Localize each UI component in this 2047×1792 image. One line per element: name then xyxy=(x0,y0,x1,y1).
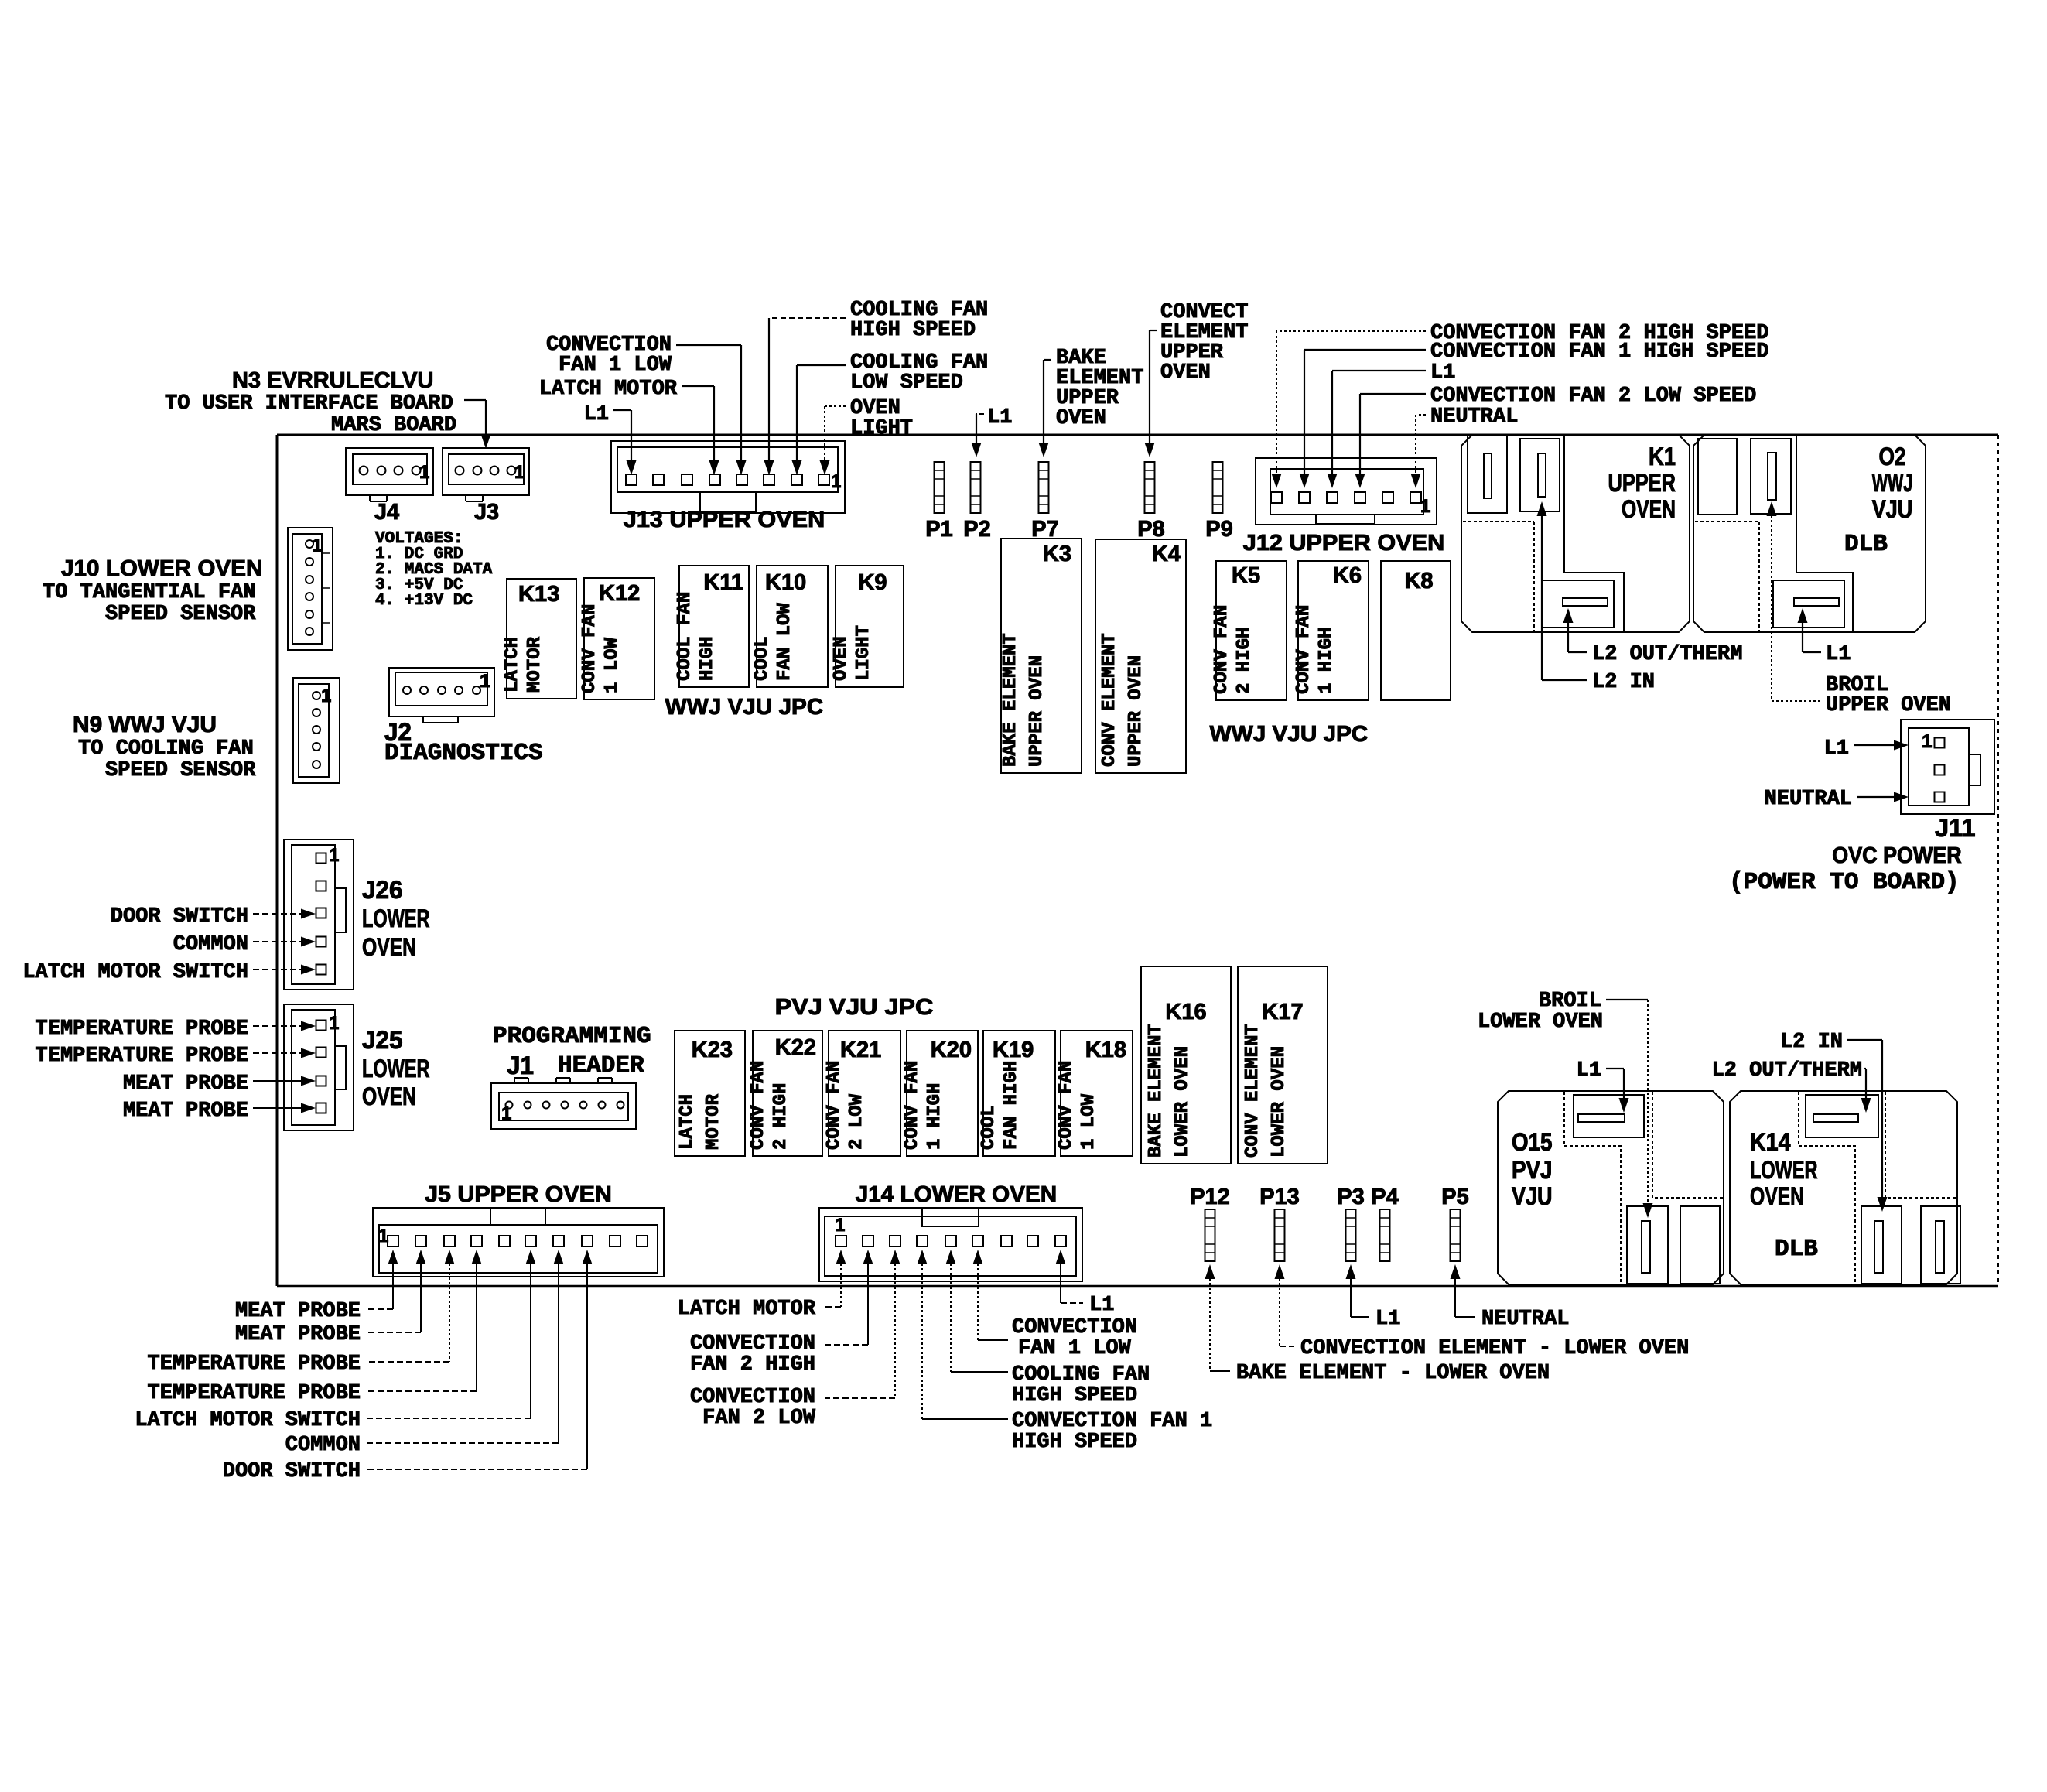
relay O15 PVJ VJU box xyxy=(1498,1091,1724,1284)
svg-text:UPPER: UPPER xyxy=(1608,469,1676,497)
svg-text:CONVECTION FAN 1 HIGH SPEED: CONVECTION FAN 1 HIGH SPEED xyxy=(1430,340,1768,364)
board outline right edge (dashed) xyxy=(1997,435,1999,1286)
wire L1 to J13 pin1 xyxy=(613,409,631,411)
svg-text:FAN 1 LOW: FAN 1 LOW xyxy=(559,354,672,377)
svg-text:LATCH MOTOR SWITCH: LATCH MOTOR SWITCH xyxy=(135,1409,361,1432)
svg-text:K9: K9 xyxy=(858,570,887,595)
svg-text:K21: K21 xyxy=(840,1038,881,1062)
relay O2 WWJ VJU (DLB box) xyxy=(1693,435,1926,632)
svg-text:K8: K8 xyxy=(1404,569,1433,593)
svg-text:L2 OUT/THERM: L2 OUT/THERM xyxy=(1592,643,1742,666)
svg-text:NEUTRAL: NEUTRAL xyxy=(1765,788,1852,811)
svg-text:2 HIGH: 2 HIGH xyxy=(771,1083,791,1150)
wire J5 pin to COMMON xyxy=(554,1250,564,1264)
svg-text:TEMPERATURE PROBE: TEMPERATURE PROBE xyxy=(148,1382,361,1405)
svg-text:DIAGNOSTICS: DIAGNOSTICS xyxy=(384,740,543,767)
svg-text:CONV FAN: CONV FAN xyxy=(902,1061,923,1150)
svg-text:LIGHT: LIGHT xyxy=(850,417,913,440)
wire J14 pin4 CONVECTION FAN 1 HIGH SPEED xyxy=(918,1250,928,1264)
wire J5 pin to MEAT PROBE xyxy=(388,1250,398,1264)
svg-text:K16: K16 xyxy=(1165,1000,1206,1024)
svg-text:LOWER: LOWER xyxy=(1750,1156,1818,1184)
pin P9 xyxy=(1213,462,1223,513)
svg-text:K17: K17 xyxy=(1262,1000,1303,1024)
svg-text:LOW SPEED: LOW SPEED xyxy=(850,371,963,395)
svg-text:1 LOW: 1 LOW xyxy=(1078,1093,1099,1150)
svg-text:K11: K11 xyxy=(703,570,743,595)
svg-text:CONV FAN: CONV FAN xyxy=(579,604,600,693)
svg-text:SPEED SENSOR: SPEED SENSOR xyxy=(105,759,256,782)
svg-text:OVEN: OVEN xyxy=(1160,361,1211,385)
wire L1 to J12 pin3 xyxy=(1332,370,1426,371)
wire J5 pin to DOOR SWITCH xyxy=(583,1250,593,1264)
svg-text:CONVECTION ELEMENT - LOWER OVE: CONVECTION ELEMENT - LOWER OVEN xyxy=(1300,1337,1689,1360)
svg-text:CONV ELEMENT: CONV ELEMENT xyxy=(1099,633,1120,767)
svg-text:K3: K3 xyxy=(1043,542,1071,566)
svg-text:LOWER: LOWER xyxy=(362,905,430,932)
svg-text:1: 1 xyxy=(419,462,429,483)
svg-text:J25: J25 xyxy=(362,1026,403,1054)
connector J1 xyxy=(491,1078,636,1129)
wire L1 to O15 upper connector xyxy=(1606,1068,1624,1069)
wire N3 to J3 xyxy=(464,399,486,401)
svg-text:J10 LOWER OVEN: J10 LOWER OVEN xyxy=(61,556,262,581)
svg-text:NEUTRAL: NEUTRAL xyxy=(1430,405,1518,429)
svg-text:MOTOR: MOTOR xyxy=(703,1093,724,1150)
svg-text:1: 1 xyxy=(501,1103,511,1124)
svg-text:FAN 2 LOW: FAN 2 LOW xyxy=(702,1407,816,1430)
svg-text:VJU: VJU xyxy=(1512,1182,1553,1210)
wire J5 pin to MEAT PROBE xyxy=(416,1250,426,1264)
connector J11 OVC POWER xyxy=(1901,720,1994,814)
board outline left edge xyxy=(276,435,279,1286)
wire P3 L1 xyxy=(1346,1264,1356,1279)
svg-text:DLB: DLB xyxy=(1775,1236,1818,1263)
svg-text:OVEN: OVEN xyxy=(1622,495,1676,523)
svg-text:TO COOLING FAN: TO COOLING FAN xyxy=(78,737,254,761)
svg-text:1: 1 xyxy=(835,1215,845,1236)
relay K20 CONV FAN 1 HIGH xyxy=(902,1031,978,1156)
wire L2 IN to K1 connector xyxy=(1537,501,1547,516)
svg-text:1: 1 xyxy=(514,462,525,483)
wire CONVECTION FAN 2 HIGH SPEED to J12 pin1 (dotted) xyxy=(1276,330,1426,332)
svg-text:CONV FAN: CONV FAN xyxy=(748,1061,769,1150)
svg-text:COMMON: COMMON xyxy=(173,933,248,956)
svg-text:DOOR SWITCH: DOOR SWITCH xyxy=(223,1460,361,1483)
svg-text:P13: P13 xyxy=(1259,1185,1300,1209)
wire P13 CONVECTION ELEMENT - LOWER OVEN xyxy=(1275,1264,1285,1279)
svg-text:P3: P3 xyxy=(1337,1185,1364,1209)
svg-text:P4: P4 xyxy=(1371,1185,1398,1209)
svg-text:LIGHT: LIGHT xyxy=(853,625,874,681)
board outline top edge xyxy=(277,434,1998,436)
svg-text:2 LOW: 2 LOW xyxy=(846,1093,867,1150)
svg-text:TEMPERATURE PROBE: TEMPERATURE PROBE xyxy=(148,1353,361,1376)
svg-text:TEMPERATURE PROBE: TEMPERATURE PROBE xyxy=(36,1017,248,1041)
svg-text:J12 UPPER OVEN: J12 UPPER OVEN xyxy=(1243,531,1444,556)
svg-text:MOTOR: MOTOR xyxy=(525,636,545,693)
relay K21 CONV FAN 2 LOW xyxy=(824,1031,900,1156)
svg-text:K1: K1 xyxy=(1649,443,1676,470)
connector J26 LOWER OVEN xyxy=(284,840,354,990)
svg-text:P2: P2 xyxy=(963,517,990,542)
connector J12 xyxy=(1256,458,1437,525)
svg-text:CONVECTION: CONVECTION xyxy=(690,1332,815,1356)
svg-text:K12: K12 xyxy=(599,581,640,606)
wire J14 pin1 LATCH MOTOR xyxy=(836,1250,846,1264)
pin P3 xyxy=(1346,1209,1356,1261)
wire COOLING FAN LOW SPEED to J13 pin7 xyxy=(797,364,846,366)
relay K4 CONV ELEMENT UPPER OVEN xyxy=(1095,539,1186,773)
wire J14 pin9 L1 xyxy=(1056,1250,1066,1264)
svg-text:1 LOW: 1 LOW xyxy=(602,637,623,693)
svg-text:L1: L1 xyxy=(1826,643,1851,666)
connector J14 xyxy=(819,1208,1082,1281)
svg-text:1: 1 xyxy=(312,535,322,556)
relay K1 UPPER OVEN (DLB box) xyxy=(1461,435,1690,632)
pin P4 xyxy=(1380,1209,1390,1261)
connector J2 DIAGNOSTICS xyxy=(389,668,494,723)
svg-text:FAN 2 HIGH: FAN 2 HIGH xyxy=(690,1353,815,1376)
svg-text:L1: L1 xyxy=(1089,1294,1114,1317)
connector J4 xyxy=(346,448,433,501)
svg-text:(POWER TO BOARD): (POWER TO BOARD) xyxy=(1729,869,1960,896)
relay K16 BAKE ELEMENT LOWER OVEN xyxy=(1141,966,1231,1164)
relay K9 OVEN LIGHT xyxy=(831,566,904,687)
wire MEAT PROBE to J25 pin4 xyxy=(253,1107,302,1109)
svg-text:J11: J11 xyxy=(1935,814,1976,842)
wire MEAT PROBE to J25 pin3 xyxy=(253,1080,302,1082)
svg-text:1: 1 xyxy=(321,686,331,706)
svg-text:CONV FAN: CONV FAN xyxy=(824,1061,845,1150)
relay K13 LATCH MOTOR xyxy=(502,579,576,699)
svg-text:OVEN: OVEN xyxy=(1750,1182,1804,1210)
svg-text:LATCH: LATCH xyxy=(502,637,523,693)
svg-text:MEAT PROBE: MEAT PROBE xyxy=(123,1099,248,1123)
wire LATCH MOTOR to J13 pin4 xyxy=(682,385,714,387)
wire CONVECTION FAN 1 HIGH SPEED to J12 pin2 xyxy=(1304,349,1426,351)
wire J5 pin to LATCH MOTOR SWITCH xyxy=(526,1250,536,1264)
svg-text:N3 EVRRULECLVU: N3 EVRRULECLVU xyxy=(232,368,433,393)
connector N9 xyxy=(293,678,340,783)
pin P2 xyxy=(971,462,981,513)
svg-text:COOLING FAN: COOLING FAN xyxy=(1012,1363,1150,1387)
svg-text:J1: J1 xyxy=(507,1052,534,1079)
wire COOLING FAN HIGH SPEED to J13 pin6 xyxy=(769,317,846,319)
wire BROIL UPPER OVEN to O2 connector (dotted) xyxy=(1767,501,1777,516)
svg-text:L1: L1 xyxy=(1375,1308,1400,1331)
svg-text:NEUTRAL: NEUTRAL xyxy=(1481,1308,1569,1331)
svg-text:P5: P5 xyxy=(1441,1185,1468,1209)
svg-text:COOL: COOL xyxy=(752,636,773,681)
svg-text:LATCH: LATCH xyxy=(677,1094,698,1150)
svg-text:CONV FAN: CONV FAN xyxy=(1056,1061,1077,1150)
svg-text:LATCH MOTOR: LATCH MOTOR xyxy=(678,1298,816,1321)
pin P7 xyxy=(1039,462,1049,513)
wire CONVECTION FAN 2 LOW SPEED to J12 pin4 xyxy=(1360,393,1426,395)
svg-text:MEAT PROBE: MEAT PROBE xyxy=(235,1323,361,1346)
svg-text:L2 OUT/THERM: L2 OUT/THERM xyxy=(1712,1059,1862,1082)
svg-text:SPEED SENSOR: SPEED SENSOR xyxy=(105,603,256,626)
svg-text:1: 1 xyxy=(480,671,490,692)
svg-text:COMMON: COMMON xyxy=(285,1434,361,1457)
svg-text:K18: K18 xyxy=(1085,1038,1126,1062)
wire NEUTRAL to J12 pin6 (dotted) xyxy=(1416,414,1426,416)
svg-text:FAN HIGH: FAN HIGH xyxy=(1001,1061,1022,1150)
wire L2 IN to K14 lower connector xyxy=(1847,1039,1882,1041)
svg-text:OVEN: OVEN xyxy=(1056,407,1106,430)
svg-text:LOWER OVEN: LOWER OVEN xyxy=(1478,1011,1603,1034)
svg-text:J5 UPPER OVEN: J5 UPPER OVEN xyxy=(425,1182,612,1207)
relay K14 LOWER OVEN (DLB box) xyxy=(1730,1091,1960,1284)
svg-text:CONVECTION FAN 2 LOW SPEED: CONVECTION FAN 2 LOW SPEED xyxy=(1430,385,1756,408)
relay K19 COOL FAN HIGH xyxy=(979,1031,1055,1156)
svg-text:CONVECTION: CONVECTION xyxy=(690,1386,815,1409)
relay K6 CONV FAN 1 HIGH xyxy=(1293,561,1369,700)
svg-text:L1: L1 xyxy=(584,403,609,426)
svg-text:1: 1 xyxy=(831,471,841,492)
wire TEMPERATURE PROBE to J25 pin1 xyxy=(253,1025,302,1027)
connector J3 xyxy=(443,448,529,501)
svg-text:K10: K10 xyxy=(765,570,806,595)
svg-text:CONV FAN: CONV FAN xyxy=(1293,605,1314,694)
wire J14 pin6 CONVECTION FAN 1 LOW xyxy=(973,1250,983,1264)
wire L1 to J11 pin1 xyxy=(1854,744,1895,746)
pin P12 xyxy=(1205,1209,1215,1261)
svg-text:O15: O15 xyxy=(1512,1128,1553,1156)
svg-text:HIGH SPEED: HIGH SPEED xyxy=(1012,1384,1137,1407)
svg-text:TEMPERATURE PROBE: TEMPERATURE PROBE xyxy=(36,1045,248,1068)
wire CONVECT ELEMENT UPPER OVEN to P8 xyxy=(1150,330,1157,331)
relay K5 CONV FAN 2 HIGH xyxy=(1211,561,1287,700)
pin P8 xyxy=(1145,462,1155,513)
wire BAKE ELEMENT UPPER OVEN to P7 xyxy=(1044,359,1051,361)
svg-text:P12: P12 xyxy=(1190,1185,1230,1209)
pin P13 xyxy=(1275,1209,1285,1261)
pin P5 xyxy=(1451,1209,1461,1261)
svg-text:WWJ: WWJ xyxy=(1872,469,1913,497)
connector J10 xyxy=(288,528,333,650)
wire BROIL LOWER OVEN to O15 lower connector xyxy=(1606,999,1648,1000)
svg-text:HIGH: HIGH xyxy=(697,636,718,681)
relay K17 CONV ELEMENT LOWER OVEN xyxy=(1238,966,1328,1164)
svg-text:OVEN: OVEN xyxy=(831,636,852,681)
connector J13 xyxy=(611,441,845,513)
svg-text:TO TANGENTIAL FAN: TO TANGENTIAL FAN xyxy=(43,581,255,604)
relay K3 BAKE ELEMENT UPPER OVEN xyxy=(1000,539,1082,773)
svg-text:MARS BOARD: MARS BOARD xyxy=(331,414,456,437)
wire L1 to O2 lower connector xyxy=(1798,608,1808,623)
svg-text:LATCH MOTOR: LATCH MOTOR xyxy=(539,378,678,401)
svg-text:CONVECTION FAN 1: CONVECTION FAN 1 xyxy=(1012,1410,1212,1433)
board outline bottom edge xyxy=(277,1285,1998,1288)
svg-text:L1: L1 xyxy=(1577,1059,1601,1082)
svg-text:K20: K20 xyxy=(931,1038,972,1062)
svg-text:PVJ VJU JPC: PVJ VJU JPC xyxy=(775,995,934,1020)
wire DOOR SWITCH to J26 pin3 xyxy=(253,913,302,915)
svg-text:BAKE ELEMENT: BAKE ELEMENT xyxy=(1146,1024,1167,1158)
svg-text:HEADER: HEADER xyxy=(558,1052,644,1079)
svg-text:LATCH MOTOR SWITCH: LATCH MOTOR SWITCH xyxy=(22,961,248,984)
svg-text:K5: K5 xyxy=(1232,563,1260,588)
relay K23 LATCH MOTOR xyxy=(675,1031,745,1156)
svg-text:1: 1 xyxy=(378,1226,388,1247)
relay K10 COOL FAN LOW xyxy=(752,566,828,687)
svg-text:L2 IN: L2 IN xyxy=(1780,1031,1843,1054)
svg-text:UPPER OVEN: UPPER OVEN xyxy=(1826,694,1951,717)
wire COMMON to J26 pin4 xyxy=(253,941,302,942)
svg-text:OVC POWER: OVC POWER xyxy=(1832,843,1961,868)
svg-text:HIGH SPEED: HIGH SPEED xyxy=(1012,1431,1137,1454)
svg-text:P1: P1 xyxy=(925,517,952,542)
wire CONVECTION FAN 1 LOW to J13 pin5 xyxy=(676,344,741,346)
svg-text:K19: K19 xyxy=(993,1038,1034,1062)
connector J25 LOWER OVEN xyxy=(284,1004,354,1130)
relay K11 COOL FAN HIGH xyxy=(675,566,749,687)
svg-text:LOWER: LOWER xyxy=(362,1055,430,1082)
svg-text:4. +13V DC: 4. +13V DC xyxy=(375,592,473,610)
svg-text:J13 UPPER OVEN: J13 UPPER OVEN xyxy=(624,508,825,532)
connector J5 xyxy=(373,1208,664,1277)
svg-text:MEAT PROBE: MEAT PROBE xyxy=(235,1300,361,1323)
svg-text:L1: L1 xyxy=(987,406,1012,429)
wire J14 pin3 CONVECTION FAN 2 LOW xyxy=(890,1250,900,1264)
svg-text:J4: J4 xyxy=(374,500,399,525)
relay K12 CONV FAN 1 LOW xyxy=(579,578,654,699)
svg-text:BROIL: BROIL xyxy=(1539,990,1601,1013)
relay K18 CONV FAN 1 LOW xyxy=(1056,1031,1133,1156)
pin P1 xyxy=(935,462,945,513)
svg-text:P8: P8 xyxy=(1137,517,1164,542)
svg-text:COOL: COOL xyxy=(979,1105,1000,1150)
svg-text:BAKE ELEMENT - LOWER OVEN: BAKE ELEMENT - LOWER OVEN xyxy=(1236,1362,1550,1385)
svg-text:K14: K14 xyxy=(1750,1128,1791,1156)
svg-text:1: 1 xyxy=(1420,496,1430,517)
wire L2 OUT/THERM to K14 upper connector xyxy=(1864,1068,1866,1069)
svg-text:WWJ VJU JPC: WWJ VJU JPC xyxy=(1210,722,1369,747)
svg-text:1: 1 xyxy=(1922,731,1932,752)
svg-text:N9 WWJ VJU: N9 WWJ VJU xyxy=(73,713,217,737)
wire L2 OUT/THERM to K1 lower connector xyxy=(1563,608,1574,623)
relay K22 CONV FAN 2 HIGH xyxy=(748,1031,822,1156)
wire NEUTRAL to J11 pin3 xyxy=(1857,796,1895,798)
svg-text:OVEN: OVEN xyxy=(362,1082,416,1110)
svg-text:FAN 1 LOW: FAN 1 LOW xyxy=(1018,1337,1132,1360)
svg-text:P7: P7 xyxy=(1031,517,1058,542)
svg-text:K6: K6 xyxy=(1333,563,1362,588)
svg-text:2 HIGH: 2 HIGH xyxy=(1234,628,1255,694)
svg-text:LOWER OVEN: LOWER OVEN xyxy=(1172,1046,1193,1158)
wire LATCH MOTOR SWITCH to J26 pin5 xyxy=(253,969,302,970)
wire J14 pin2 CONVECTION FAN 2 HIGH xyxy=(863,1250,873,1264)
svg-text:DLB: DLB xyxy=(1844,531,1888,558)
svg-text:DOOR SWITCH: DOOR SWITCH xyxy=(111,905,248,928)
svg-text:UPPER OVEN: UPPER OVEN xyxy=(1027,655,1047,767)
svg-text:HIGH SPEED: HIGH SPEED xyxy=(850,319,976,342)
wire OVEN LIGHT to J13 pin8 (dotted) xyxy=(825,405,846,407)
svg-text:J14 LOWER OVEN: J14 LOWER OVEN xyxy=(856,1182,1057,1207)
svg-text:P9: P9 xyxy=(1205,517,1232,542)
svg-text:BAKE ELEMENT: BAKE ELEMENT xyxy=(1000,633,1021,767)
svg-text:L1: L1 xyxy=(1824,737,1849,761)
svg-text:K22: K22 xyxy=(775,1035,816,1060)
svg-text:1: 1 xyxy=(329,1013,339,1034)
svg-text:FAN LOW: FAN LOW xyxy=(774,603,795,681)
svg-text:1 HIGH: 1 HIGH xyxy=(1316,628,1337,694)
svg-text:CONV FAN: CONV FAN xyxy=(1211,605,1232,694)
wire P12 BAKE ELEMENT - LOWER OVEN xyxy=(1205,1264,1215,1279)
svg-text:COOL FAN: COOL FAN xyxy=(675,592,695,681)
svg-text:CONVECTION: CONVECTION xyxy=(1012,1316,1137,1339)
svg-text:MEAT PROBE: MEAT PROBE xyxy=(123,1072,248,1096)
svg-text:PVJ: PVJ xyxy=(1512,1156,1553,1184)
relay K8 xyxy=(1381,561,1451,700)
svg-text:1: 1 xyxy=(329,845,339,866)
svg-text:OVEN: OVEN xyxy=(362,933,416,961)
svg-text:K23: K23 xyxy=(692,1038,733,1062)
svg-text:LOWER OVEN: LOWER OVEN xyxy=(1269,1046,1290,1158)
wire J5 pin to TEMPERATURE PROBE xyxy=(445,1250,455,1264)
svg-text:K4: K4 xyxy=(1152,542,1181,566)
wire TEMPERATURE PROBE to J25 pin2 xyxy=(253,1052,302,1054)
svg-text:1 HIGH: 1 HIGH xyxy=(924,1083,945,1150)
svg-text:J3: J3 xyxy=(474,500,499,525)
svg-text:O2: O2 xyxy=(1879,443,1906,470)
svg-text:TO USER INTERFACE BOARD: TO USER INTERFACE BOARD xyxy=(165,392,453,416)
svg-text:PROGRAMMING: PROGRAMMING xyxy=(493,1023,651,1050)
svg-text:L2 IN: L2 IN xyxy=(1592,671,1655,694)
svg-text:CONV ELEMENT: CONV ELEMENT xyxy=(1242,1024,1263,1158)
svg-text:K13: K13 xyxy=(518,582,559,607)
svg-text:WWJ VJU JPC: WWJ VJU JPC xyxy=(665,695,824,720)
wire J14 pin5 COOLING FAN HIGH SPEED xyxy=(946,1250,956,1264)
svg-text:VJU: VJU xyxy=(1872,495,1913,523)
wire L1 to P2 xyxy=(976,413,984,415)
svg-text:L1: L1 xyxy=(1430,361,1455,385)
svg-text:J26: J26 xyxy=(362,876,403,904)
wire P5 NEUTRAL xyxy=(1451,1264,1461,1279)
svg-text:UPPER OVEN: UPPER OVEN xyxy=(1126,655,1147,767)
wire J5 pin to TEMPERATURE PROBE xyxy=(472,1250,482,1264)
